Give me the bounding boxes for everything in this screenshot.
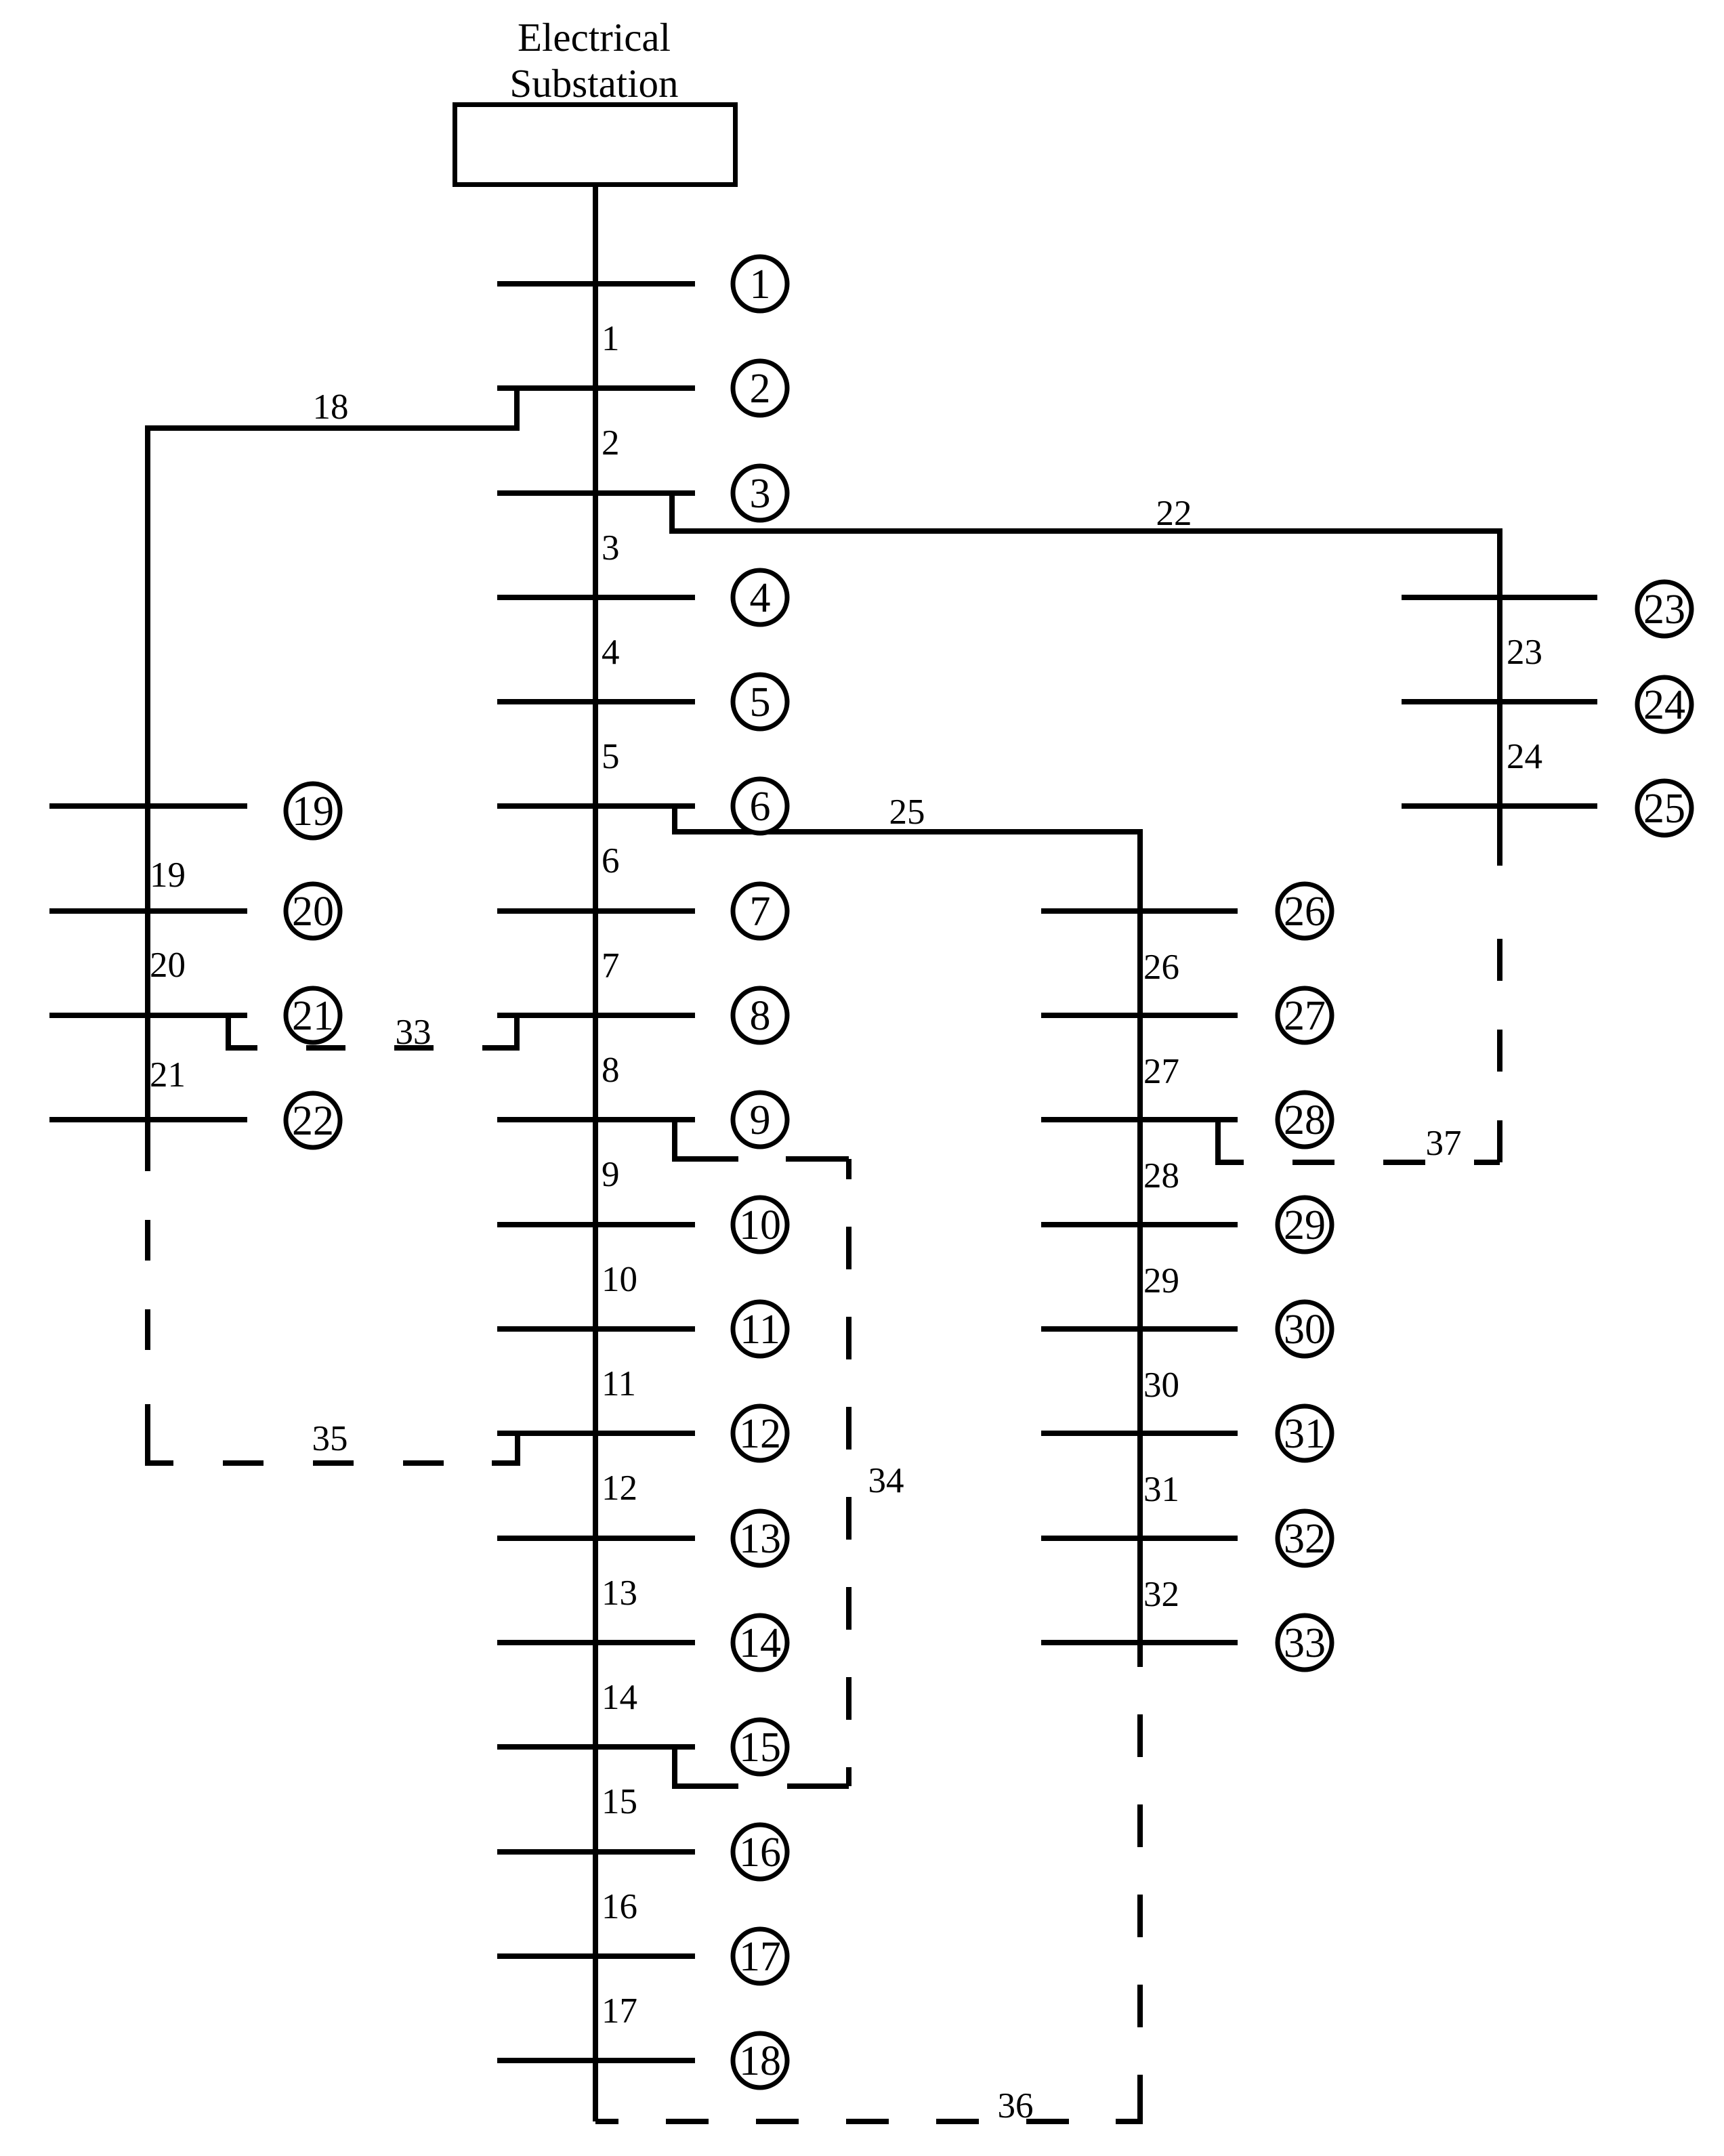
bus 10 bar (497, 1222, 695, 1227)
bus 33 bar (1041, 1640, 1238, 1645)
tie switch 33 wire (bus21-bus8) (228, 1015, 517, 1048)
node 11 (733, 1302, 787, 1356)
bus 17 bar (497, 1953, 695, 1959)
bus 22 bar (49, 1117, 247, 1122)
svg-text:26: 26 (1143, 948, 1179, 987)
bus 20 bar (49, 908, 247, 914)
branch 22 wire (672, 493, 1500, 531)
svg-text:9: 9 (750, 1097, 771, 1143)
feeder 26-33 wire (1137, 829, 1143, 1667)
node 15 (733, 1720, 787, 1774)
node 28 (1278, 1093, 1332, 1147)
bus 26 bar (1041, 908, 1238, 914)
svg-text:Substation: Substation (509, 61, 678, 106)
bus 16 bar (497, 1849, 695, 1855)
svg-text:33: 33 (1284, 1620, 1326, 1666)
node 16 (733, 1825, 787, 1879)
node 1 (733, 257, 787, 311)
substation label (509, 15, 678, 106)
node 13 (733, 1511, 787, 1565)
svg-text:31: 31 (1284, 1411, 1326, 1457)
svg-text:6: 6 (602, 841, 620, 881)
node 27 (1278, 988, 1332, 1042)
node 26 (1278, 884, 1332, 938)
svg-text:22: 22 (292, 1098, 334, 1144)
bus 7 bar (497, 908, 695, 914)
bus 11 bar (497, 1326, 695, 1332)
svg-text:16: 16 (602, 1887, 637, 1926)
node 29 (1278, 1198, 1332, 1252)
node 30 (1278, 1302, 1332, 1356)
bus 4 bar (497, 595, 695, 600)
bus 25 bar (1402, 803, 1597, 809)
node 23 (1637, 582, 1691, 636)
svg-text:3: 3 (602, 528, 620, 568)
svg-text:1: 1 (750, 261, 771, 308)
svg-text:23: 23 (1507, 633, 1542, 672)
substation box (455, 105, 736, 185)
svg-text:Electrical: Electrical (518, 15, 671, 60)
svg-text:7: 7 (602, 946, 620, 986)
bus 32 bar (1041, 1536, 1238, 1541)
svg-text:11: 11 (602, 1364, 636, 1403)
svg-text:34: 34 (868, 1461, 904, 1500)
svg-text:37: 37 (1426, 1124, 1462, 1163)
left feeder wire (145, 425, 150, 1171)
node 3 (733, 466, 787, 520)
svg-text:14: 14 (739, 1620, 781, 1666)
node 5 (733, 675, 787, 729)
node 33 (1278, 1615, 1332, 1670)
tie switch 35 wire (bus22-bus12) (148, 1171, 518, 1463)
svg-text:9: 9 (602, 1155, 620, 1194)
svg-text:12: 12 (602, 1468, 637, 1508)
bus 13 bar (497, 1536, 695, 1541)
svg-text:24: 24 (1507, 737, 1542, 776)
svg-text:17: 17 (739, 1934, 781, 1980)
node 6 (733, 779, 787, 833)
bus 1 bar (497, 281, 695, 287)
svg-text:23: 23 (1643, 587, 1685, 633)
main feeder wire (593, 184, 598, 2121)
svg-text:3: 3 (750, 471, 771, 517)
bus 14 bar (497, 1640, 695, 1645)
svg-text:18: 18 (739, 2038, 781, 2084)
bus 18 bar (497, 2058, 695, 2063)
bus 31 bar (1041, 1431, 1238, 1436)
bus 19 bar (49, 803, 247, 809)
svg-text:20: 20 (292, 889, 334, 935)
node 25 (1637, 781, 1691, 835)
bus 9 bar (497, 1117, 695, 1122)
svg-text:1: 1 (602, 319, 620, 358)
svg-text:7: 7 (750, 889, 771, 935)
svg-text:10: 10 (602, 1260, 637, 1299)
node 19 (286, 784, 340, 838)
bus 27 bar (1041, 1013, 1238, 1018)
svg-text:27: 27 (1284, 993, 1326, 1039)
svg-text:5: 5 (750, 679, 771, 725)
bus 24 bar (1402, 699, 1597, 704)
svg-text:20: 20 (150, 946, 186, 985)
tie switch 34 wire (bus9-bus15) (675, 1120, 849, 1786)
svg-text:10: 10 (739, 1202, 781, 1248)
svg-text:21: 21 (150, 1055, 186, 1095)
node 21 (286, 988, 340, 1042)
svg-text:28: 28 (1284, 1097, 1326, 1143)
svg-text:21: 21 (292, 993, 334, 1039)
svg-text:15: 15 (739, 1725, 781, 1771)
branch 25 wire (675, 806, 1140, 832)
svg-text:13: 13 (602, 1573, 637, 1613)
svg-text:11: 11 (740, 1307, 780, 1353)
bus 23 bar (1402, 595, 1597, 600)
svg-text:19: 19 (292, 788, 334, 834)
node 8 (733, 988, 787, 1042)
bus 6 bar (497, 803, 695, 809)
bus 15 bar (497, 1744, 695, 1750)
svg-text:28: 28 (1143, 1156, 1179, 1196)
svg-text:2: 2 (750, 366, 771, 412)
svg-text:32: 32 (1284, 1516, 1326, 1562)
bus 12 bar (497, 1431, 695, 1436)
svg-text:29: 29 (1284, 1202, 1326, 1248)
svg-text:36: 36 (998, 2086, 1034, 2126)
node 4 (733, 570, 787, 625)
node 22 (286, 1093, 340, 1147)
node 18 (733, 2033, 787, 2088)
bus 21 bar (49, 1013, 247, 1018)
svg-text:16: 16 (739, 1830, 781, 1876)
svg-text:22: 22 (1156, 494, 1192, 533)
bus 5 bar (497, 699, 695, 704)
svg-text:4: 4 (602, 633, 620, 672)
svg-text:25: 25 (889, 792, 925, 832)
branch 18 wire (148, 388, 517, 428)
node 32 (1278, 1511, 1332, 1565)
svg-text:18: 18 (313, 387, 349, 427)
svg-text:33: 33 (396, 1013, 432, 1052)
svg-text:14: 14 (602, 1678, 637, 1717)
node 14 (733, 1615, 787, 1670)
svg-text:26: 26 (1284, 889, 1326, 935)
bus 3 bar (497, 490, 695, 496)
svg-text:30: 30 (1284, 1307, 1326, 1353)
svg-text:35: 35 (312, 1419, 348, 1458)
bus 30 bar (1041, 1326, 1238, 1332)
node 7 (733, 884, 787, 938)
svg-text:27: 27 (1143, 1052, 1179, 1091)
bus 2 bar (497, 385, 695, 391)
svg-text:30: 30 (1143, 1366, 1179, 1405)
svg-text:24: 24 (1643, 682, 1685, 728)
svg-text:4: 4 (750, 575, 771, 621)
svg-text:6: 6 (750, 784, 771, 830)
bus 8 bar (497, 1013, 695, 1018)
svg-text:17: 17 (602, 1991, 637, 2031)
node 10 (733, 1198, 787, 1252)
svg-text:32: 32 (1143, 1575, 1179, 1614)
node 31 (1278, 1406, 1332, 1460)
node 20 (286, 884, 340, 938)
node 12 (733, 1406, 787, 1460)
tie switch 37 wire (bus28-bus25) (1218, 939, 1500, 1162)
svg-text:5: 5 (602, 737, 620, 776)
svg-text:29: 29 (1143, 1261, 1179, 1301)
svg-text:13: 13 (739, 1516, 781, 1562)
bus 28 bar (1041, 1117, 1238, 1122)
svg-text:8: 8 (750, 993, 771, 1039)
svg-text:12: 12 (739, 1411, 781, 1457)
svg-text:31: 31 (1143, 1470, 1179, 1509)
tie switch 36 wire (bus18-bus33) (595, 1667, 1140, 2121)
node 17 (733, 1929, 787, 1983)
node 2 (733, 361, 787, 415)
feeder 23-25 wire (1497, 528, 1502, 866)
svg-text:15: 15 (602, 1782, 637, 1821)
node 24 (1637, 677, 1691, 732)
svg-text:8: 8 (602, 1051, 620, 1090)
svg-text:25: 25 (1643, 786, 1685, 832)
svg-text:2: 2 (602, 423, 620, 463)
bus 29 bar (1041, 1222, 1238, 1227)
node 9 (733, 1093, 787, 1147)
svg-text:19: 19 (150, 855, 186, 895)
